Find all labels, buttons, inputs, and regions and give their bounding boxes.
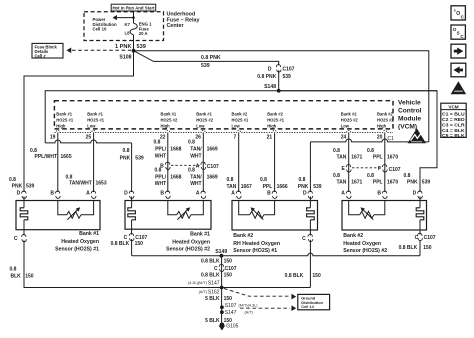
svg-text:D: D — [413, 191, 417, 197]
heater element sensor1 — [20, 208, 28, 220]
svg-text:1 PNK: 1 PNK — [115, 44, 131, 50]
svg-text:PPL: PPL — [263, 184, 273, 190]
svg-text:O: O — [456, 11, 460, 17]
svg-text:PPL/: PPL/ — [155, 174, 167, 180]
svg-text:HO2S #1: HO2S #1 — [267, 118, 285, 123]
svg-text:539: 539 — [26, 184, 35, 190]
svg-text:26: 26 — [195, 134, 201, 140]
svg-text:S108: S108 — [119, 55, 131, 61]
wire PNK top run S108 to right side — [134, 51, 429, 142]
dashed reference arrow S108 to Fuse Block Details — [72, 49, 131, 51]
svg-text:Bank #1: Bank #1 — [190, 232, 210, 238]
svg-text:WHT: WHT — [190, 153, 201, 159]
svg-text:0.8: 0.8 — [155, 168, 162, 174]
fuse ENG 1 20A element — [130, 23, 137, 35]
svg-text:Heated Oxygen: Heated Oxygen — [61, 239, 99, 245]
VCM connector color legend table — [441, 103, 466, 137]
svg-text:1669: 1669 — [207, 147, 218, 153]
svg-text:539: 539 — [135, 155, 144, 161]
O2 element sensor2 — [168, 201, 204, 219]
svg-text:Sensor (HO2S) #1: Sensor (HO2S) #1 — [55, 246, 99, 252]
svg-text:19: 19 — [50, 134, 56, 140]
svg-text:1671: 1671 — [351, 179, 362, 185]
svg-text:C1 = BLU: C1 = BLU — [442, 111, 465, 116]
sidebar icon arrow right — [451, 44, 466, 58]
wire from Hot In Run And Start into fuse — [133, 11, 135, 23]
svg-text:0.8: 0.8 — [299, 177, 306, 183]
svg-text:1653: 1653 — [96, 181, 107, 187]
svg-text:High: High — [161, 124, 171, 129]
svg-text:TAN/: TAN/ — [190, 174, 202, 180]
svg-text:Bank #2: Bank #2 — [233, 233, 253, 239]
VCM outer box top and left — [45, 91, 437, 143]
svg-text:PNK: PNK — [407, 179, 418, 185]
heater element sensor2 — [128, 208, 136, 220]
svg-text:0.8 BLK: 0.8 BLK — [201, 273, 220, 279]
svg-text:7: 7 — [234, 134, 237, 140]
svg-text:Cell 14: Cell 14 — [301, 304, 314, 309]
O2 element sensor4 — [349, 201, 385, 219]
svg-text:Sensor (HO2S) #2: Sensor (HO2S) #2 — [166, 247, 210, 253]
svg-text:F: F — [378, 166, 381, 172]
svg-text:HO2S #1: HO2S #1 — [87, 118, 105, 123]
sensor box Bank1 HO2S2 — [125, 201, 211, 230]
svg-text:PPL/WHT: PPL/WHT — [35, 154, 58, 160]
svg-text:RH Heated Oxygen: RH Heated Oxygen — [233, 241, 280, 247]
svg-text:Bank #2: Bank #2 — [377, 112, 393, 117]
svg-text:VCM: VCM — [448, 104, 458, 109]
svg-text:0.8: 0.8 — [260, 177, 267, 183]
svg-text:Low: Low — [341, 124, 350, 129]
svg-text:PNK: PNK — [120, 155, 131, 161]
svg-text:C4 = BLK: C4 = BLK — [442, 128, 465, 133]
Underhood Fuse-Relay Center dashed box — [84, 12, 164, 41]
svg-text:Low: Low — [87, 124, 96, 129]
wire S108 diagonal to 0.8 PNK run — [134, 51, 279, 66]
wire C107 to S148 — [278, 70, 280, 91]
svg-text:(A/T): (A/T) — [199, 290, 208, 294]
svg-text:C: C — [14, 236, 18, 242]
svg-text:S147: S147 — [208, 280, 220, 286]
svg-text:Cell #: Cell # — [35, 54, 47, 59]
svg-text:PNK: PNK — [298, 184, 309, 190]
svg-text:539: 539 — [201, 63, 210, 69]
svg-text:A: A — [196, 164, 200, 170]
Fuse Block Details box — [32, 43, 63, 58]
svg-text:K7: K7 — [125, 22, 131, 27]
svg-text:Bank #1: Bank #1 — [87, 112, 103, 117]
svg-text:PPL/: PPL/ — [155, 147, 167, 153]
svg-text:S107: S107 — [225, 303, 237, 309]
svg-text:21: 21 — [267, 134, 273, 140]
svg-text:0.8: 0.8 — [333, 173, 340, 179]
svg-text:1665: 1665 — [61, 154, 72, 160]
sensor box Bank2 HO2S1 — [232, 201, 318, 231]
svg-text:C107: C107 — [283, 66, 295, 72]
svg-text:D: D — [268, 66, 272, 72]
splice S162 with dot — [220, 286, 224, 290]
svg-text:Low: Low — [232, 124, 241, 129]
svg-text:Low: Low — [196, 124, 205, 129]
heater element sensor4 — [416, 208, 424, 220]
wire sensor2 C down to ground bus — [131, 239, 133, 256]
svg-text:20: 20 — [377, 134, 383, 140]
svg-text:5 BLK: 5 BLK — [205, 318, 220, 324]
svg-text:150: 150 — [224, 273, 233, 279]
svg-text:1668: 1668 — [170, 147, 181, 153]
svg-text:0.8: 0.8 — [9, 177, 16, 183]
VCM dotted connector line with pin bumps — [54, 130, 393, 132]
svg-text:0.8: 0.8 — [367, 173, 374, 179]
svg-text:(VCM): (VCM) — [398, 124, 417, 131]
svg-text:WHT: WHT — [155, 181, 166, 187]
svg-text:Module: Module — [398, 116, 421, 123]
svg-text:150: 150 — [224, 259, 233, 265]
svg-text:(A/T): (A/T) — [245, 310, 254, 314]
svg-text:HO2S #2: HO2S #2 — [377, 118, 395, 123]
svg-text:Bank #2: Bank #2 — [343, 233, 363, 239]
svg-text:C107: C107 — [389, 167, 401, 173]
svg-text:PPL: PPL — [373, 154, 383, 160]
wire pin25 to sensor1 A — [93, 132, 95, 192]
sidebar warning triangle — [451, 81, 467, 94]
wire pin21 to sensor3 B — [274, 132, 276, 192]
sidebar icon OC — [451, 6, 465, 20]
ground bus sensor2 to sensor4 with hop at sensor3 — [132, 253, 420, 256]
svg-text:HO2S #2: HO2S #2 — [161, 118, 179, 123]
svg-text:1669: 1669 — [207, 174, 218, 180]
wire pin20 to sensor4 B — [384, 132, 386, 192]
svg-text:TAN/WHT: TAN/WHT — [69, 181, 92, 187]
svg-text:25: 25 — [86, 134, 92, 140]
wire S148 to sensor4 feed — [279, 91, 437, 192]
svg-text:WHT: WHT — [190, 181, 201, 187]
svg-text:HO2S #2: HO2S #2 — [196, 118, 214, 123]
VCM right edge bottom with hops to sensor3 feed — [310, 139, 428, 142]
svg-text:TAN: TAN — [336, 179, 346, 185]
ground G105 — [220, 323, 225, 328]
svg-text:1671: 1671 — [351, 154, 362, 160]
svg-text:C: C — [302, 236, 306, 242]
arrow to Power Distribution — [115, 17, 134, 19]
svg-text:C: C — [214, 266, 218, 272]
svg-text:S: S — [457, 30, 460, 35]
svg-text:Control: Control — [398, 108, 422, 115]
svg-text:(M/T)(4.3L): (M/T)(4.3L) — [239, 304, 259, 308]
sensor box Bank1 HO2S1 — [16, 201, 100, 230]
wire fuse to S108 — [133, 35, 135, 51]
svg-text:D: D — [17, 191, 21, 197]
wire S108 down-left to sensor1 feed — [24, 51, 134, 192]
VCM dashed module box — [54, 101, 393, 129]
splice S147 A/T — [220, 310, 224, 314]
svg-text:Bank #1: Bank #1 — [161, 112, 177, 117]
svg-text:Cell 10: Cell 10 — [93, 27, 107, 32]
wire pin19 to sensor1 B — [57, 132, 59, 192]
wire pin7 to sensor3 A — [238, 132, 240, 192]
svg-text:Bank #2: Bank #2 — [232, 112, 248, 117]
svg-text:High: High — [267, 124, 277, 129]
svg-text:20 A: 20 A — [139, 31, 148, 36]
sidebar icon arrow left — [451, 63, 466, 77]
Ground Distribution Cell 14 box — [298, 294, 330, 309]
svg-text:C107: C107 — [424, 235, 436, 241]
svg-text:A: A — [196, 191, 200, 197]
dashed reference arrow S107 to Ground Distribution — [240, 307, 290, 309]
svg-text:0.8 BLK: 0.8 BLK — [111, 241, 130, 247]
svg-text:D: D — [124, 191, 128, 197]
svg-text:C5 = BLK: C5 = BLK — [442, 133, 465, 138]
svg-text:1668: 1668 — [170, 174, 181, 180]
svg-text:B: B — [377, 191, 381, 197]
svg-text:5 BLK: 5 BLK — [205, 296, 220, 302]
svg-text:B: B — [160, 191, 164, 197]
svg-text:150: 150 — [423, 245, 432, 251]
svg-text:Hot In Run And Start: Hot In Run And Start — [112, 6, 155, 11]
wire pin24 to sensor4 A — [348, 132, 350, 192]
svg-text:PPL: PPL — [373, 179, 383, 185]
svg-text:24: 24 — [341, 134, 347, 140]
svg-text:0.8: 0.8 — [367, 148, 374, 154]
svg-text:WHT: WHT — [155, 153, 166, 159]
svg-text:0.8 BLK: 0.8 BLK — [285, 273, 304, 279]
svg-text:TAN: TAN — [226, 184, 236, 190]
VCM bottom-left connector edge with pins 19 25 to sensor2 feed — [45, 140, 131, 143]
label Hot In Run And Start box — [111, 4, 156, 11]
svg-text:0.8: 0.8 — [154, 140, 161, 146]
wire pin22 to sensor2 B — [167, 132, 169, 192]
svg-text:L8: L8 — [125, 31, 131, 36]
svg-text:0.8 PNK: 0.8 PNK — [257, 74, 276, 80]
svg-text:1670: 1670 — [387, 179, 398, 185]
svg-text:C107: C107 — [225, 266, 237, 272]
svg-text:Heated Oxygen: Heated Oxygen — [172, 239, 210, 245]
sidebar icon OSC — [451, 25, 465, 39]
svg-text:High: High — [56, 124, 66, 129]
svg-text:(4.3L)(M/T): (4.3L)(M/T) — [188, 281, 208, 285]
svg-text:0.8 BLK: 0.8 BLK — [201, 259, 220, 265]
svg-text:Bank #2: Bank #2 — [341, 112, 357, 117]
svg-text:HO2S #2: HO2S #2 — [341, 118, 359, 123]
svg-text:539: 539 — [313, 184, 322, 190]
dashed reference arrow S162 to Ground Distribution — [224, 289, 290, 297]
svg-text:Bank #2: Bank #2 — [267, 112, 283, 117]
svg-text:C1: C1 — [388, 136, 395, 142]
wire sensor1 C elbow to S162 — [24, 240, 222, 287]
VCM warning triangle icon — [408, 128, 426, 143]
svg-text:Sensor (HO2S) #2: Sensor (HO2S) #2 — [343, 248, 387, 254]
svg-text:HO2S #1: HO2S #1 — [232, 118, 250, 123]
heater element sensor3 — [307, 208, 315, 220]
svg-text:B: B — [267, 191, 271, 197]
sensor box Bank2 HO2S2 — [342, 201, 427, 231]
svg-text:A: A — [231, 191, 235, 197]
svg-text:Bank #1: Bank #1 — [79, 231, 99, 237]
wire S149 down to G105 — [221, 256, 223, 323]
svg-text:1667: 1667 — [241, 184, 252, 190]
svg-text:0.8: 0.8 — [333, 148, 340, 154]
O2 element sensor3 — [239, 201, 275, 219]
svg-text:22: 22 — [160, 134, 166, 140]
O2 element sensor1 — [58, 201, 94, 219]
svg-text:S147: S147 — [225, 310, 237, 316]
svg-text:TAN/: TAN/ — [190, 147, 202, 153]
wire sensor3 branch to S162 — [222, 287, 311, 289]
svg-text:150: 150 — [25, 273, 34, 279]
svg-text:S162: S162 — [208, 290, 220, 296]
svg-text:0.8 PNK: 0.8 PNK — [201, 55, 221, 61]
svg-text:150: 150 — [224, 296, 233, 302]
svg-text:S148: S148 — [264, 84, 276, 90]
svg-text:0.8: 0.8 — [188, 168, 195, 174]
svg-text:G105: G105 — [226, 323, 238, 329]
svg-text:C2 = RED: C2 = RED — [442, 117, 465, 122]
svg-text:Heated Oxygen: Heated Oxygen — [343, 241, 381, 247]
svg-text:150: 150 — [135, 241, 144, 247]
svg-text:HO2S #1: HO2S #1 — [56, 118, 74, 123]
svg-text:High: High — [377, 124, 387, 129]
svg-text:0.8: 0.8 — [10, 266, 17, 272]
svg-text:B: B — [50, 191, 54, 197]
svg-text:0.8: 0.8 — [404, 173, 411, 179]
svg-text:539: 539 — [283, 74, 292, 80]
svg-text:A: A — [86, 191, 90, 197]
svg-text:1666: 1666 — [277, 184, 288, 190]
svg-text:BLK: BLK — [11, 273, 22, 279]
svg-text:C3 = CLR: C3 = CLR — [442, 122, 465, 127]
svg-text:C107: C107 — [207, 164, 219, 170]
svg-text:0.8 BLK: 0.8 BLK — [399, 245, 418, 251]
svg-text:539: 539 — [422, 179, 431, 185]
svg-text:1670: 1670 — [387, 154, 398, 160]
svg-text:0.8: 0.8 — [123, 148, 130, 154]
splice S107 M/T 4.3L — [220, 305, 224, 309]
wire pin26 to sensor2 A — [202, 132, 204, 192]
svg-text:150: 150 — [312, 273, 321, 279]
wire sensor3 C down through hop — [309, 240, 311, 288]
svg-text:D: D — [303, 191, 307, 197]
svg-text:C: C — [415, 235, 419, 241]
svg-text:Vehicle: Vehicle — [398, 100, 421, 107]
svg-text:539: 539 — [137, 44, 146, 50]
splice S108 — [132, 49, 136, 53]
svg-text:Center: Center — [167, 23, 185, 29]
svg-text:PNK: PNK — [12, 184, 23, 190]
svg-text:Bank #1: Bank #1 — [196, 112, 212, 117]
svg-text:0.8: 0.8 — [227, 177, 234, 183]
svg-text:Bank #1: Bank #1 — [56, 112, 72, 117]
svg-text:A: A — [341, 191, 345, 197]
svg-text:Sensor (HO2S) #1: Sensor (HO2S) #1 — [233, 248, 277, 254]
svg-text:TAN: TAN — [336, 154, 346, 160]
svg-text:0.8: 0.8 — [188, 140, 195, 146]
